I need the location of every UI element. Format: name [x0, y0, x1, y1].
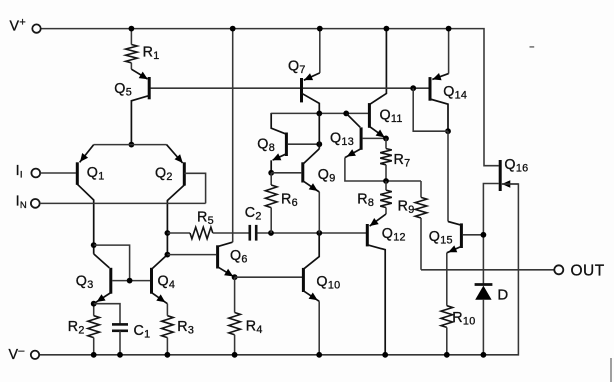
svg-text:OUT: OUT	[571, 262, 605, 279]
svg-text:D: D	[497, 287, 508, 304]
